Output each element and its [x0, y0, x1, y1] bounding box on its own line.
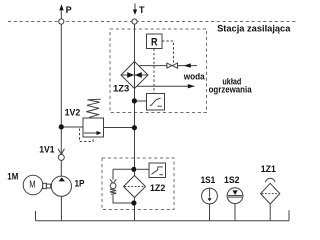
- svg-text:1V2: 1V2: [65, 108, 81, 118]
- svg-text:P: P: [66, 5, 72, 15]
- svg-text:T: T: [139, 5, 145, 15]
- svg-text:1Z2: 1Z2: [150, 183, 165, 193]
- svg-text:1S1: 1S1: [201, 175, 216, 185]
- svg-text:1Z1: 1Z1: [261, 164, 276, 174]
- svg-text:M: M: [29, 180, 35, 191]
- svg-text:1P: 1P: [75, 179, 85, 189]
- svg-text:ogrzewania: ogrzewania: [209, 85, 253, 95]
- svg-text:1S2: 1S2: [224, 175, 240, 185]
- svg-text:R: R: [151, 37, 158, 49]
- svg-text:1M: 1M: [7, 172, 18, 182]
- svg-text:Stacja zasilająca: Stacja zasilająca: [217, 24, 291, 34]
- svg-text:1V1: 1V1: [39, 144, 54, 154]
- svg-text:1Z3: 1Z3: [113, 83, 129, 93]
- svg-text:woda: woda: [183, 71, 206, 81]
